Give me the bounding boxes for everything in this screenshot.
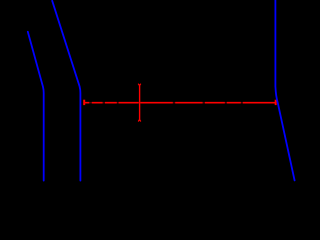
red left end cap	[83, 100, 85, 105]
red marker top barbs	[138, 84, 141, 86]
blue curve left (slant then vertical)	[28, 32, 44, 181]
red dim underlay of dimension line	[85, 102, 276, 104]
blue curve middle (slant then vertical)	[52, 1, 80, 181]
red dashed dimension line	[85, 102, 276, 104]
blue curve right (vertical then slant)	[275, 0, 294, 180]
red right end cap	[275, 100, 277, 105]
red marker bottom barbs	[138, 120, 141, 122]
red vertical marker shaft	[139, 85, 141, 120]
